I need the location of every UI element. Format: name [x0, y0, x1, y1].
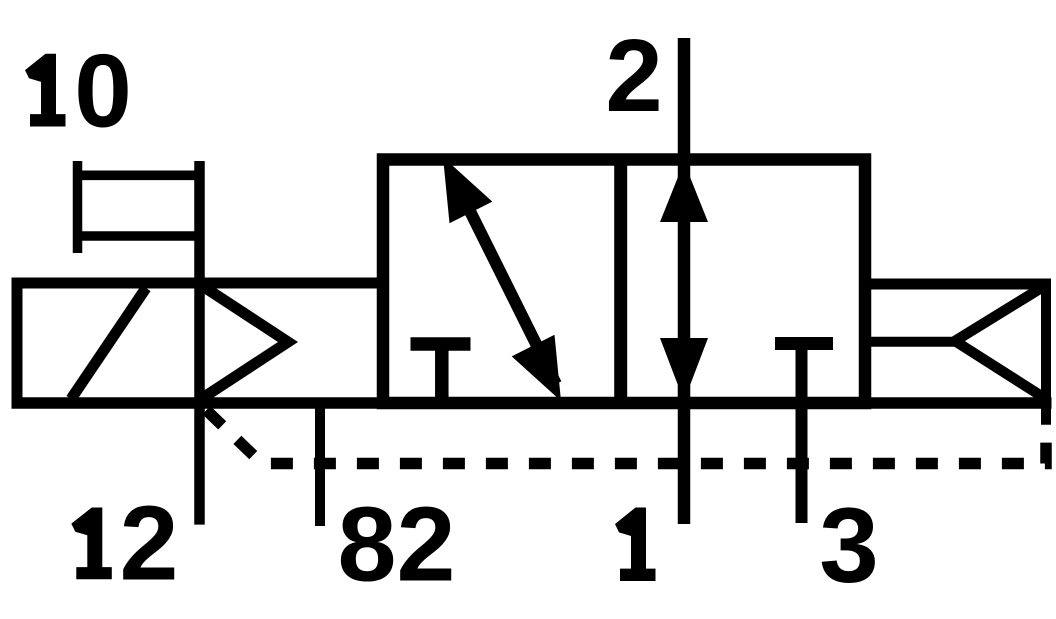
- solenoid diagonal stroke: [71, 288, 146, 399]
- left square: diagonal flow arrow shaft: [450, 171, 556, 384]
- diagonal arrow head (top): [443, 157, 492, 223]
- detent symbol bottom line: [73, 231, 204, 241]
- svg-text:8: 8: [338, 486, 397, 604]
- flow path arrow shaft (port 1 to 2): [678, 160, 691, 403]
- port 2 line: [678, 38, 691, 160]
- right attachment right edge: [1041, 279, 1051, 425]
- port label 12 : digit 1: [71, 508, 112, 580]
- valve position separator: [614, 154, 627, 410]
- pilot triangle (right, pointing left): [955, 285, 1046, 399]
- right attachment top edge: [865, 279, 1051, 290]
- svg-text:0: 0: [74, 32, 132, 148]
- right square T stem + port 3 line: [796, 344, 808, 524]
- left square: blocked port T (stem): [435, 344, 449, 408]
- flow arrow head up: [660, 162, 708, 222]
- right attachment mid stub: [865, 337, 956, 347]
- svg-text:2: 2: [397, 486, 456, 604]
- port 1 line: [678, 403, 691, 524]
- flow arrow head down: [660, 338, 708, 401]
- bottom rail (shared bottom edge): [12, 397, 1052, 409]
- port label 1: [615, 508, 656, 581]
- svg-text:2: 2: [605, 18, 662, 133]
- solenoid coil box left edge: [12, 278, 23, 409]
- valve body outline: [383, 160, 865, 404]
- pilot control dashed line: [202, 406, 1046, 464]
- pilot stem / port 12 line: [194, 161, 205, 525]
- port 82 line: [315, 403, 325, 526]
- left attachment top edge: [12, 278, 384, 289]
- port label 10 : digit 1: [25, 54, 66, 127]
- left square: blocked port T (bar): [411, 337, 471, 351]
- svg-text:3: 3: [819, 485, 879, 605]
- svg-text:2: 2: [120, 485, 179, 603]
- diagonal arrow head (bottom): [512, 335, 561, 401]
- detent symbol left bar: [73, 161, 83, 253]
- pilot triangle (left, pointing right): [200, 284, 289, 400]
- right square: blocked port T (bar): [775, 337, 833, 350]
- detent symbol top line: [73, 171, 204, 181]
